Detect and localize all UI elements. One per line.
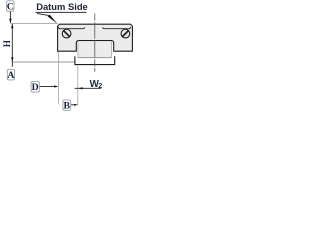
svg-text:A: A xyxy=(7,70,14,81)
H top arrow xyxy=(11,24,13,29)
svg-text:C: C xyxy=(7,2,14,13)
top reference extension line xyxy=(10,22,57,24)
C leader arrow xyxy=(9,19,11,24)
inner step line right xyxy=(103,27,131,29)
D arrow xyxy=(54,85,58,87)
box C xyxy=(7,1,14,11)
W2 dimension line xyxy=(75,87,102,89)
datum leader arrow xyxy=(48,15,58,24)
svg-text:D: D xyxy=(32,82,39,93)
svg-text:B: B xyxy=(64,101,71,112)
under-rect left edge xyxy=(77,41,79,58)
W2 arrow xyxy=(78,87,83,89)
H dimension line xyxy=(11,24,13,67)
B dimension line xyxy=(71,104,75,106)
inner step line left xyxy=(58,27,84,29)
screw left xyxy=(62,29,71,38)
B arrow xyxy=(74,104,78,106)
H bottom arrow xyxy=(11,57,13,62)
screw right xyxy=(121,29,130,38)
svg-text:H: H xyxy=(2,40,12,47)
extension line for B / W2 xyxy=(77,65,79,105)
svg-text:Datum Side: Datum Side xyxy=(36,1,88,12)
C leader line xyxy=(9,11,11,23)
under-rect fill xyxy=(78,41,112,58)
box A xyxy=(7,69,14,80)
svg-text:2: 2 xyxy=(98,81,102,90)
part body outline xyxy=(58,24,133,51)
lower block (rect #2) xyxy=(75,56,115,64)
datum leader line xyxy=(37,13,49,15)
D dimension line xyxy=(40,86,56,88)
datum underline xyxy=(36,11,87,13)
box D xyxy=(31,81,39,92)
extension line for D xyxy=(58,52,60,104)
bottom reference extension line (A) xyxy=(12,61,75,63)
centerline xyxy=(94,14,96,72)
under-rect bottom edge xyxy=(78,57,112,59)
box B xyxy=(63,100,71,110)
under-rect right edge xyxy=(111,41,113,58)
